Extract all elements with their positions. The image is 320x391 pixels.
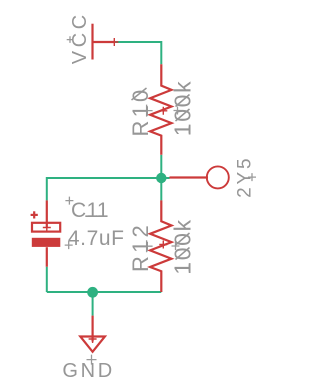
svg-text:100k: 100k <box>170 80 196 137</box>
svg-text:4.7uF: 4.7uF <box>68 227 125 250</box>
svg-text:100k: 100k <box>170 218 196 275</box>
svg-text:VCC: VCC <box>69 11 91 64</box>
svg-text:2Y5: 2Y5 <box>235 156 256 198</box>
svg-text:R12: R12 <box>128 222 153 272</box>
svg-text:R10: R10 <box>128 87 153 137</box>
svg-text:GND: GND <box>62 360 115 382</box>
svg-text:C11: C11 <box>71 199 109 222</box>
